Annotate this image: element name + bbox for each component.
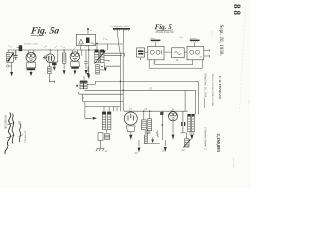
svg-text:Osc.: Osc. (179, 37, 183, 39)
svg-text:mark: mark (248, 100, 250, 106)
capacitor C2 mid (43, 56, 48, 60)
wire stub (81, 50, 83, 56)
svg-text:24: 24 (182, 148, 186, 152)
label 23 on rail (145, 108, 164, 115)
capacitor C6 plates (181, 111, 187, 139)
tube V5 (168, 108, 177, 140)
resistor R6 under V2 (48, 62, 55, 83)
capacitor C4 (84, 50, 88, 69)
bottom wire output (144, 143, 160, 145)
transformer T1 input coil (7, 50, 14, 65)
attorney by (18, 121, 22, 125)
ground arrow under V3 (74, 69, 77, 75)
svg-text:2 Sheets-Sheet 2: 2 Sheets-Sheet 2 (204, 127, 208, 150)
inventor label (3, 115, 6, 129)
fig5 component labels (149, 37, 197, 40)
svg-text:2nd Det. A.V.C.: 2nd Det. A.V.C. (24, 42, 39, 45)
ground arrow under V1 (30, 70, 33, 76)
wire vertical mid output (162, 111, 164, 140)
page number 88 (232, 4, 242, 17)
wire from box to vertical (96, 44, 125, 72)
resistor R3 (141, 111, 146, 129)
svg-text:22: 22 (135, 151, 139, 155)
node circle below T1 (7, 65, 12, 67)
junction dots (50, 43, 151, 112)
tube V4 (124, 108, 137, 140)
wire top rail (8, 49, 94, 51)
capacitor C1 (14, 50, 18, 60)
svg-text:27: 27 (129, 108, 133, 112)
fig5 right leads (204, 49, 210, 57)
svg-text:24: 24 (82, 97, 85, 100)
wire tap B (83, 94, 124, 101)
speaker stem double wire (117, 30, 124, 55)
header title (211, 74, 214, 107)
svg-text:23: 23 (145, 108, 148, 111)
inventor signature (5, 113, 15, 155)
capacitor C5 (145, 129, 151, 134)
svg-text:28: 28 (171, 108, 174, 111)
svg-text:very faint: very faint (232, 158, 235, 168)
svg-text:Filed Dec. 30, 1936: Filed Dec. 30, 1936 (203, 74, 208, 98)
resistor R1 (62, 50, 66, 63)
attorney signature (19, 124, 24, 143)
resistor R4 diagonal (156, 131, 159, 138)
wire lower left with hook (78, 92, 123, 99)
transformer T4 power (102, 107, 117, 130)
bus rail A (95, 80, 198, 82)
svg-text:Fig. 5a: Fig. 5a (29, 26, 60, 37)
fig5 connectors (145, 51, 187, 53)
svg-text:17: 17 (153, 61, 156, 64)
output transformer T5 (188, 114, 195, 132)
svg-text:SIGNAL TRANSLATING SYSTEM: SIGNAL TRANSLATING SYSTEM (211, 74, 214, 107)
variable resistor R7 (183, 139, 190, 148)
attorney label (23, 131, 26, 144)
stub right (204, 98, 206, 108)
fig5 speaker right (190, 40, 200, 47)
ground arrow below T1 (10, 65, 13, 77)
oscillator box (76, 34, 95, 45)
loudspeaker bar (111, 25, 131, 31)
ground wire left of R2 (87, 67, 90, 78)
svg-text:G: G (150, 86, 153, 90)
resistor R2 below T2 (96, 63, 105, 74)
ground arrow onto bottom line (151, 138, 154, 144)
fig5 bottom loops (149, 60, 202, 68)
wire tap C (85, 102, 121, 107)
component reference ticks (8, 44, 89, 52)
fig5 speaker left (151, 40, 161, 47)
ground arrow under C4 (85, 70, 88, 75)
svg-text:Phase Inverter: Phase Inverter (155, 30, 176, 34)
ground arrow 24 (182, 135, 194, 152)
header date (218, 25, 224, 56)
resistor block below T4 (96, 130, 110, 153)
tube V3 double (70, 48, 80, 69)
svg-text:Loudspeaker field: Loudspeaker field (111, 25, 130, 28)
header sheets (204, 127, 208, 150)
svg-text:88: 88 (232, 4, 242, 17)
wire into T4 (85, 107, 97, 120)
fig5 box 1 microphone (137, 48, 145, 60)
long vertical pair (120, 43, 123, 111)
svg-text:2: 2 (103, 38, 105, 41)
fold line (240, 2, 247, 112)
capacitor under T5 (189, 132, 194, 135)
header patent number (216, 134, 221, 153)
fig5 box 3 oscillator (172, 48, 185, 62)
faint margin marks (211, 31, 214, 40)
rail drops right (185, 81, 199, 114)
svg-text:INVENTOR: INVENTOR (3, 115, 6, 129)
svg-text:2,130,893: 2,130,893 (216, 134, 221, 153)
node G label (150, 86, 153, 90)
fig5 box 4 (187, 46, 204, 59)
wires from box to rail (81, 46, 90, 80)
tube V1 double diode (24, 42, 39, 70)
figure label Fig. 5 (154, 23, 175, 34)
stem label tick (103, 38, 108, 41)
svg-text:19: 19 (176, 59, 179, 62)
antenna tick above box (87, 28, 92, 34)
resistor R5 (144, 135, 147, 143)
bus rail B (85, 89, 196, 91)
header inventor (218, 76, 222, 100)
svg-text:21: 21 (200, 56, 202, 59)
svg-text:C. W. FINNIGAN: C. W. FINNIGAN (218, 76, 222, 100)
svg-text:faint ink: faint ink (211, 31, 214, 40)
svg-text:ATTORNEY: ATTORNEY (23, 131, 26, 144)
svg-text:4: 4 (8, 44, 10, 47)
wire under V2 (47, 50, 58, 63)
choke L1 (148, 111, 152, 131)
tube V2 (46, 47, 57, 63)
IF transformer T2 (94, 50, 106, 64)
component box on rail (17, 45, 23, 51)
header filed (203, 74, 208, 98)
fig5 box 2 (148, 46, 164, 64)
ground arrow under R1 (63, 63, 66, 75)
output top rail (124, 110, 188, 112)
ground arrow mid (162, 140, 167, 152)
ground arrow 22 (135, 140, 141, 155)
svg-text:22: 22 (105, 150, 108, 153)
ground arrow under cap (53, 65, 56, 71)
figure label Fig. 5a (29, 26, 60, 37)
svg-text:Sept. 20, 1938.: Sept. 20, 1938. (218, 25, 224, 56)
capacitor blob under V2 (52, 63, 57, 66)
transformer T3 (76, 76, 95, 89)
svg-text:8: 8 (46, 46, 48, 48)
